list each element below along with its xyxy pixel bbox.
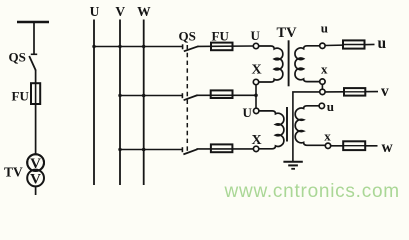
fuse FU row 2 bbox=[211, 90, 233, 98]
svg-text:v: v bbox=[381, 83, 389, 100]
QS pole 1 contact bbox=[182, 44, 184, 49]
svg-text:V: V bbox=[30, 156, 41, 172]
node at V tap bbox=[118, 94, 121, 97]
TV2 secondary winding bbox=[295, 106, 325, 146]
QS pole 2 blade bbox=[184, 95, 198, 100]
svg-text:TV: TV bbox=[4, 165, 23, 180]
svg-text:TV: TV bbox=[277, 25, 298, 41]
TV1 core bbox=[288, 40, 290, 86]
fuse u midline bbox=[343, 44, 365, 46]
switch QS fixed contact tick bbox=[31, 53, 37, 55]
svg-text:X: X bbox=[252, 63, 262, 78]
wire X of TV1 down to U of TV2 through middle tap bbox=[255, 85, 257, 109]
terminal X of TV2 bbox=[253, 146, 258, 151]
terminal u of TV2 bbox=[319, 103, 324, 108]
fuse w midline bbox=[343, 145, 365, 147]
svg-text:U: U bbox=[243, 105, 253, 120]
QS pole 3 contact bbox=[181, 147, 183, 152]
svg-text:w: w bbox=[382, 139, 394, 156]
wire from switch to fuse FU bbox=[35, 70, 37, 84]
svg-text:u: u bbox=[327, 99, 334, 114]
wire junction to earth conductor bbox=[293, 92, 320, 161]
fuse FU (left, vertical) bbox=[31, 83, 40, 105]
ground bbox=[283, 162, 302, 169]
voltage transformer TV (two-winding symbol) bbox=[27, 154, 44, 187]
svg-text:QS: QS bbox=[9, 50, 26, 65]
node at W crossing top row bbox=[142, 45, 145, 48]
terminal u of TV1 bbox=[320, 43, 325, 48]
svg-text:W: W bbox=[137, 4, 151, 19]
phase line V bbox=[119, 20, 121, 186]
svg-text:www.cntronics.com: www.cntronics.com bbox=[224, 181, 400, 202]
TV2 core bbox=[286, 107, 288, 142]
terminal X of TV1 bbox=[253, 79, 258, 84]
wire from fuse to transformer TV bbox=[35, 104, 37, 155]
fuse FU row 3 bbox=[211, 144, 233, 152]
wire junction to fuse (output v) bbox=[325, 91, 378, 93]
fuse FU row 1 bbox=[211, 43, 233, 51]
wire row 2 to junction bbox=[197, 94, 257, 96]
svg-text:U: U bbox=[90, 4, 100, 19]
phase line U bbox=[93, 20, 95, 186]
terminal x of TV1 bbox=[320, 79, 325, 84]
TV2 primary winding bbox=[259, 111, 284, 149]
TV1 secondary winding bbox=[295, 46, 320, 82]
busbar (left single-line feeder) bbox=[17, 21, 49, 24]
QS pole 3 blade bbox=[183, 149, 197, 154]
QS pole 2 contact bbox=[181, 93, 183, 98]
wire x of TV1 to junction node bbox=[321, 84, 323, 89]
node at U tap bbox=[92, 45, 95, 48]
svg-text:FU: FU bbox=[12, 89, 30, 104]
switch QS blade (open) bbox=[29, 56, 36, 71]
svg-text:U: U bbox=[251, 28, 261, 43]
node at W crossing bottom row bbox=[142, 148, 146, 152]
junction terminal (v takeoff) bbox=[320, 89, 325, 94]
svg-text:V: V bbox=[30, 172, 41, 188]
wire tap (bottom row) bbox=[120, 149, 182, 151]
QS linkage dashed line bbox=[186, 45, 188, 151]
wire u of TV1 to fuse (output u) bbox=[325, 44, 374, 45]
terminal U of TV2 bbox=[254, 108, 259, 113]
node at V bottom tap bbox=[118, 148, 121, 151]
wire tap from phase V (middle row) bbox=[120, 95, 182, 97]
fuse v midline bbox=[344, 91, 365, 93]
wire row 3 to TV2 X terminal bbox=[197, 148, 254, 150]
QS pole 1 blade bbox=[184, 46, 199, 51]
svg-text:x: x bbox=[321, 61, 328, 76]
fuse output w bbox=[343, 141, 365, 150]
fuse output v bbox=[344, 88, 365, 96]
wire below transformer TV bbox=[35, 186, 37, 195]
node at W crossing middle row bbox=[142, 94, 146, 98]
phase line W bbox=[143, 20, 145, 186]
svg-text:QS: QS bbox=[179, 29, 196, 44]
wire row 1 to TV1 U terminal bbox=[198, 45, 254, 47]
node at V crossing top row bbox=[118, 45, 121, 48]
wire from busbar to switch QS bbox=[33, 22, 35, 54]
TV1 primary winding bbox=[259, 46, 283, 82]
svg-text:V: V bbox=[115, 4, 125, 19]
terminal U of TV1 bbox=[253, 43, 258, 48]
fuse output u bbox=[343, 40, 365, 48]
svg-text:u: u bbox=[321, 20, 328, 35]
wire x of TV2 to fuse (output w) bbox=[331, 145, 378, 147]
svg-text:u: u bbox=[378, 35, 387, 52]
svg-text:x: x bbox=[324, 128, 331, 143]
node middle tap junction bbox=[254, 94, 258, 98]
wire tap from phase U (top row) bbox=[94, 46, 183, 48]
svg-text:FU: FU bbox=[212, 28, 230, 43]
terminal x of TV2 bbox=[325, 143, 330, 148]
